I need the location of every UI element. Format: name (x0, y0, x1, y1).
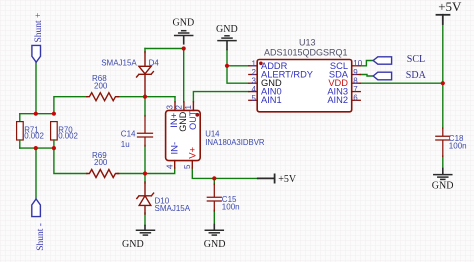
svg-text:6: 6 (353, 94, 358, 103)
U14 pin 2 GND (183, 102, 185, 111)
wire D4 leads (144, 49, 146, 97)
wire shunt- bottom rail (20, 147, 54, 149)
wire R69 to U14 IN- (118, 168, 175, 174)
svg-text:200: 200 (94, 82, 108, 91)
U13 pin names (261, 61, 349, 105)
capacitor C18 (436, 128, 450, 157)
svg-text:0.002: 0.002 (24, 131, 44, 140)
wire U13 SDA to flag (360, 75, 373, 77)
diode D4 SMAJ15A (TVS) (137, 52, 154, 96)
svg-text:2: 2 (175, 105, 184, 110)
U14 pin numbers (165, 105, 193, 170)
node D4/C14 top (143, 95, 147, 99)
wire +5V rail (442, 24, 444, 129)
node shunt- tap (34, 146, 38, 150)
power +5V top right (437, 15, 450, 24)
wire C18 bottom lead (442, 156, 444, 169)
wire Shunt+ flag to top rail (35, 62, 37, 113)
U14 pin1 marker (195, 113, 199, 117)
wire GND node down to U14 GND pin (183, 49, 185, 102)
U14 pin 3 IN+ (174, 102, 176, 111)
wire node A down to U14 IN+ (174, 97, 176, 102)
node GND/D4 (182, 46, 186, 50)
svg-text:5: 5 (251, 94, 256, 103)
U13 left pin stubs 1-5 (249, 66, 257, 101)
node +5V rail / VDD (441, 81, 445, 85)
resistor R71 (19, 114, 21, 122)
node C15 tap (212, 176, 216, 180)
resistor R68 (87, 93, 119, 101)
power +5V mid (U14 V+) (258, 174, 275, 182)
wire bottom rail to Shunt- flag (35, 148, 37, 199)
capacitor C14 (138, 116, 153, 147)
svg-text:D4: D4 (149, 59, 160, 68)
svg-text:GND: GND (178, 111, 188, 132)
U13 pin numbers (251, 59, 362, 103)
svg-text:+5V: +5V (278, 174, 297, 185)
svg-text:GND: GND (173, 18, 195, 29)
svg-text:SDA: SDA (406, 70, 427, 81)
wire U13 SCL to flag (360, 61, 373, 66)
svg-text:4: 4 (251, 85, 256, 94)
node shunt+ tap (34, 112, 38, 116)
resistor R69 (87, 170, 119, 178)
svg-text:1: 1 (251, 59, 256, 68)
wire C15 leads (213, 178, 215, 224)
wire shunt+ top rail (20, 113, 54, 115)
svg-text:3: 3 (166, 105, 175, 110)
IC U13 ADS1015QDGSRQ1 (257, 60, 352, 112)
ground GND top mid (U13 ADDR) (218, 36, 236, 50)
svg-text:C14: C14 (121, 130, 136, 139)
svg-text:4: 4 (165, 164, 174, 169)
wire U13 ADDR to GND node (227, 50, 249, 66)
svg-text:U13: U13 (299, 38, 316, 48)
U14 pin names (169, 110, 198, 159)
ground GND bottom left (D10) (137, 226, 155, 236)
wire U14 OUT up and to U13 AIN0 (193, 92, 248, 102)
svg-text:1: 1 (184, 105, 193, 110)
svg-text:1u: 1u (121, 140, 130, 149)
node R70 top (52, 112, 56, 116)
svg-text:GND: GND (204, 239, 226, 250)
svg-text:AIN1: AIN1 (261, 95, 282, 105)
wire R68 to node A (118, 96, 176, 98)
svg-text:IN-: IN- (170, 142, 181, 155)
capacitor C15 (207, 184, 221, 211)
svg-text:0.002: 0.002 (58, 131, 78, 140)
svg-text:7: 7 (353, 85, 358, 94)
svg-text:GND: GND (122, 239, 144, 250)
wire D4 top to GND node (145, 48, 184, 50)
flag SCL (373, 57, 391, 64)
ground GND top left (above U14) (175, 31, 193, 44)
op-amp U14 INA180A3IDBVR (166, 110, 201, 160)
svg-text:GND: GND (216, 24, 238, 35)
svg-text:5: 5 (183, 164, 192, 169)
U14 pin 1 OUT (192, 102, 194, 111)
wire D10 lead (144, 174, 146, 226)
wire U13 GND pin to node (227, 66, 249, 83)
flag Shunt - (32, 199, 41, 217)
svg-text:2: 2 (251, 68, 256, 77)
ground GND bottom mid (C15) (205, 225, 223, 236)
svg-text:V+: V+ (187, 146, 198, 158)
wire U13 VDD to +5V rail (360, 82, 443, 84)
svg-text:10: 10 (353, 59, 362, 68)
U14 pin 5 V+ (191, 161, 193, 168)
svg-text:+5V: +5V (438, 0, 462, 14)
svg-text:AIN2: AIN2 (327, 95, 348, 105)
svg-text:SMAJ15A: SMAJ15A (155, 204, 191, 213)
wire C14 column (144, 97, 146, 174)
flag Shunt + (32, 45, 41, 62)
node R70 bottom (52, 146, 56, 150)
svg-text:ADS1015QDGSRQ1: ADS1015QDGSRQ1 (264, 48, 348, 58)
flag SDA (373, 72, 391, 80)
svg-text:Shunt -: Shunt - (36, 223, 46, 251)
svg-text:Shunt +: Shunt + (34, 13, 44, 43)
resistor R70 (51, 122, 58, 140)
svg-text:INA180A3IDBVR: INA180A3IDBVR (205, 138, 265, 147)
node C14/D10 bottom (143, 171, 147, 175)
U13 pin1 marker (259, 62, 263, 66)
svg-text:GND: GND (432, 180, 454, 191)
wire R70 top to R68 (54, 97, 87, 114)
svg-text:SCL: SCL (407, 54, 425, 65)
wire U14 V+ to +5V (192, 168, 257, 178)
node U13 ADDR/GND (225, 64, 229, 68)
svg-text:SMAJ15A: SMAJ15A (101, 59, 137, 68)
svg-text:9: 9 (353, 68, 358, 77)
U13 right pin stubs 10-6 (352, 66, 361, 101)
U14 pin 4 IN- (174, 161, 176, 168)
svg-text:100n: 100n (449, 141, 467, 150)
svg-text:100n: 100n (222, 202, 240, 211)
ground GND right (C18) (434, 169, 452, 180)
wire bottom rail to R69 (54, 148, 87, 173)
diode D10 SMAJ15A (TVS) (137, 182, 154, 214)
svg-text:200: 200 (94, 158, 108, 167)
